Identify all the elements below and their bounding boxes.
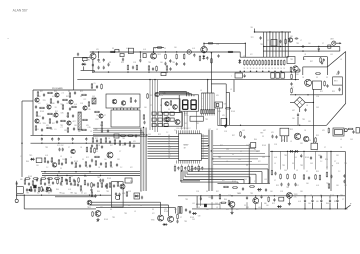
label <box>271 68 273 70</box>
transistor TR24 <box>293 66 298 71</box>
svg-text:C7: C7 <box>61 127 63 129</box>
wire <box>186 111 188 129</box>
svg-text:IC2: IC2 <box>258 161 261 163</box>
resistor <box>88 101 90 107</box>
label <box>43 123 46 125</box>
battery lead <box>345 203 352 209</box>
label <box>336 185 340 187</box>
display digit 8 <box>191 100 196 109</box>
capacitor C60 <box>102 179 104 183</box>
resistor <box>105 137 107 143</box>
label <box>226 149 229 151</box>
wire <box>246 196 248 209</box>
label <box>260 133 263 135</box>
label <box>66 116 70 118</box>
svg-text:680: 680 <box>20 179 23 181</box>
label <box>104 115 106 117</box>
svg-text:R4: R4 <box>88 60 90 62</box>
svg-text:0.01: 0.01 <box>74 104 77 106</box>
svg-text:L9: L9 <box>200 90 202 92</box>
switch box S21 <box>158 124 162 127</box>
wire <box>213 158 258 160</box>
wire <box>207 93 209 110</box>
label <box>86 157 89 159</box>
resistor R80 <box>303 174 305 180</box>
resistor <box>39 107 45 109</box>
svg-text:TR5: TR5 <box>148 62 151 64</box>
resistor R65 <box>126 191 128 197</box>
label <box>274 180 276 182</box>
svg-text:5K: 5K <box>277 68 279 70</box>
label <box>130 167 133 169</box>
ic left pin wire <box>148 148 179 150</box>
resistor <box>81 129 87 131</box>
label <box>251 37 254 39</box>
svg-text:R55: R55 <box>95 138 98 140</box>
label <box>240 151 242 153</box>
svg-text:R55: R55 <box>316 171 319 173</box>
label <box>294 197 298 199</box>
svg-text:TR9: TR9 <box>97 177 100 179</box>
svg-text:680: 680 <box>256 151 259 153</box>
wire bundle <box>143 128 145 192</box>
resistor <box>67 112 69 118</box>
label <box>246 145 248 147</box>
svg-text:L9: L9 <box>216 129 218 131</box>
capacitor <box>58 137 60 141</box>
capacitor C3 <box>98 52 100 62</box>
label <box>318 155 321 157</box>
switch box S03 <box>170 112 174 115</box>
svg-text:D3: D3 <box>110 209 112 211</box>
capacitor C55 <box>100 162 102 166</box>
ground <box>230 211 233 214</box>
junction <box>41 135 42 136</box>
capacitor C58 <box>62 148 64 152</box>
capacitor C14 <box>318 47 320 51</box>
label <box>140 191 142 193</box>
svg-text:L14: L14 <box>258 207 261 209</box>
wire <box>180 180 200 182</box>
svg-text:L9: L9 <box>226 161 228 163</box>
label <box>55 107 57 109</box>
capacitor C87 <box>330 175 332 179</box>
svg-text:IC2: IC2 <box>84 193 87 195</box>
svg-text:TR9: TR9 <box>340 195 343 197</box>
label <box>26 161 29 163</box>
label <box>220 145 223 147</box>
label <box>250 68 252 70</box>
resistor <box>106 183 108 189</box>
capacitor <box>329 196 331 209</box>
label <box>320 195 322 197</box>
label <box>277 68 279 70</box>
junction <box>330 151 331 152</box>
svg-text:1K: 1K <box>283 68 285 70</box>
ic right pin wire <box>201 153 208 155</box>
label <box>216 95 220 97</box>
svg-text:2.2: 2.2 <box>120 167 122 169</box>
svg-text:C45: C45 <box>350 139 353 141</box>
label <box>316 201 319 203</box>
junction <box>269 31 270 32</box>
junction <box>165 51 166 52</box>
svg-text:100: 100 <box>308 43 311 45</box>
capacitor C11b <box>169 59 171 63</box>
label <box>36 129 39 131</box>
label <box>280 191 283 193</box>
ic left pin wire <box>148 145 179 147</box>
svg-text:IC2: IC2 <box>291 87 294 89</box>
label <box>52 96 55 98</box>
switch box S02 <box>164 112 168 115</box>
label <box>46 104 49 106</box>
label <box>264 179 267 181</box>
svg-text:1K: 1K <box>250 68 252 70</box>
label <box>265 68 267 70</box>
label <box>308 43 311 45</box>
wire bundle <box>141 128 143 192</box>
label <box>274 144 277 146</box>
svg-text:C18: C18 <box>160 95 163 97</box>
svg-text:33: 33 <box>82 159 84 161</box>
label <box>258 191 261 193</box>
svg-text:TR5: TR5 <box>52 116 55 118</box>
label <box>98 167 101 169</box>
capacitor C72 <box>246 196 248 200</box>
svg-text:5K: 5K <box>244 68 246 70</box>
label <box>344 163 347 165</box>
resistor <box>35 125 37 131</box>
box BX21 <box>120 54 124 57</box>
capacitor C16b <box>217 54 219 58</box>
svg-text:C81: C81 <box>344 185 347 187</box>
diode D8 <box>289 150 294 153</box>
svg-text:C18: C18 <box>224 131 227 133</box>
junction <box>255 195 256 196</box>
label <box>74 161 78 163</box>
label <box>78 131 81 133</box>
label <box>231 111 235 113</box>
junction <box>21 143 22 144</box>
label <box>242 130 245 132</box>
svg-text:100: 100 <box>306 183 309 185</box>
resistor R66 <box>92 211 94 217</box>
label <box>340 59 342 61</box>
pin <box>123 108 125 110</box>
resistor R43 <box>207 110 208 116</box>
resistor ladder R20 <box>244 60 246 66</box>
label <box>305 54 307 56</box>
wire bundle <box>210 130 212 191</box>
label <box>164 211 168 213</box>
wire <box>213 161 252 163</box>
resistor <box>32 180 34 186</box>
resistor ladder R25 <box>259 60 261 66</box>
box dark <box>34 185 37 188</box>
label <box>52 123 55 125</box>
resistor ladder R32 <box>280 60 282 66</box>
title text ALAN 567 <box>13 8 28 12</box>
svg-text:C81: C81 <box>64 130 67 132</box>
capacitor C59 <box>99 179 101 183</box>
svg-text:C81: C81 <box>300 143 303 145</box>
svg-text:LD: LD <box>202 155 204 157</box>
label <box>88 127 91 129</box>
svg-text:TR5: TR5 <box>302 119 305 121</box>
svg-text:R108: R108 <box>231 111 235 113</box>
junction <box>240 125 241 126</box>
capacitor C11 <box>244 74 246 78</box>
capacitor C76 <box>290 82 292 86</box>
capacitor <box>42 116 44 120</box>
junction <box>153 51 154 52</box>
pin label <box>202 145 204 147</box>
label <box>185 92 188 94</box>
svg-text:D3: D3 <box>80 96 82 98</box>
junction <box>281 31 282 32</box>
resistor <box>280 174 282 180</box>
diode D1 <box>238 59 241 64</box>
svg-text:TR9: TR9 <box>260 133 263 135</box>
resistor <box>47 113 53 115</box>
capacitor <box>87 183 89 187</box>
junction <box>212 158 213 159</box>
label <box>46 125 50 127</box>
capacitor C12b <box>176 62 178 66</box>
capacitor C82 <box>275 135 277 139</box>
wire <box>255 196 257 209</box>
svg-text:100: 100 <box>266 205 269 207</box>
wire <box>284 32 286 57</box>
label <box>148 134 151 136</box>
label <box>120 185 123 187</box>
junction <box>289 195 290 196</box>
wire bump <box>115 49 119 52</box>
label <box>250 54 253 56</box>
svg-text:IC2: IC2 <box>37 193 40 195</box>
resistor R3 <box>157 47 163 49</box>
regulator IC4 <box>280 128 289 142</box>
capacitor C6 <box>103 66 105 70</box>
ic right pin wire <box>201 140 208 142</box>
resistor <box>57 179 59 185</box>
svg-text:5K: 5K <box>268 68 270 70</box>
svg-text:TR5: TR5 <box>112 217 115 219</box>
svg-text:100: 100 <box>38 96 41 98</box>
svg-text:C18: C18 <box>280 191 283 193</box>
svg-text:TR5: TR5 <box>59 193 62 195</box>
capacitor <box>28 182 30 186</box>
svg-text:0.01: 0.01 <box>122 193 125 195</box>
svg-text:C7: C7 <box>104 115 106 117</box>
pin <box>126 108 128 110</box>
pin <box>116 108 118 110</box>
capacitor C19 <box>152 67 154 71</box>
wire <box>326 151 328 169</box>
svg-text:R12: R12 <box>296 185 299 187</box>
resistor <box>119 140 121 146</box>
wire rail <box>90 201 161 203</box>
svg-text:C45: C45 <box>246 207 249 209</box>
wire rail <box>196 203 220 205</box>
resistor <box>40 179 42 185</box>
resistor R31 <box>101 84 103 90</box>
junction <box>89 195 90 196</box>
wire staircase <box>181 171 238 184</box>
svg-text:C7: C7 <box>324 147 326 149</box>
label <box>62 159 65 161</box>
label <box>236 209 239 211</box>
resistor R74 <box>324 81 326 87</box>
label <box>74 193 77 195</box>
label <box>316 151 318 153</box>
label <box>316 77 318 79</box>
label <box>308 121 311 123</box>
display digit 8 <box>183 100 188 109</box>
capacitor C69 <box>200 197 202 201</box>
label <box>238 159 241 161</box>
board label <box>52 87 63 90</box>
svg-text:TR9: TR9 <box>70 193 73 195</box>
capacitor <box>280 183 282 187</box>
label <box>336 163 339 165</box>
capacitor <box>36 178 38 182</box>
svg-text:D3: D3 <box>152 209 154 211</box>
capacitor <box>73 127 75 131</box>
ic right pin wire <box>201 148 208 150</box>
svg-text:C81: C81 <box>290 36 293 38</box>
resistor <box>33 178 39 180</box>
resistor R68 <box>219 194 221 200</box>
diode D6 <box>192 212 197 215</box>
resistor <box>84 180 86 186</box>
junction <box>154 79 155 80</box>
capacitor C2 <box>92 63 94 67</box>
label <box>153 48 156 50</box>
diode D3 <box>30 158 35 161</box>
capacitor C15b <box>206 56 208 60</box>
label <box>291 87 294 89</box>
resistor R59 <box>110 161 112 167</box>
label <box>66 123 70 125</box>
junction <box>299 125 300 126</box>
label <box>80 96 82 98</box>
box BX12 <box>125 178 132 183</box>
label <box>96 119 99 121</box>
svg-text:TR9: TR9 <box>106 191 109 193</box>
svg-text:680: 680 <box>316 201 319 203</box>
resistor <box>294 174 296 180</box>
label <box>310 61 313 63</box>
resistor <box>66 179 68 185</box>
junction <box>318 50 319 51</box>
label <box>84 193 87 195</box>
svg-text:TR28: TR28 <box>294 194 298 196</box>
svg-text:R64: R64 <box>130 181 133 183</box>
wire <box>261 196 263 209</box>
label <box>262 145 266 147</box>
resistor ladder R24 <box>256 60 257 66</box>
capacitor C61 <box>16 182 18 186</box>
svg-text:R12: R12 <box>158 134 161 136</box>
svg-text:R108: R108 <box>104 219 108 221</box>
junction <box>86 143 87 144</box>
capacitor C22 <box>143 121 145 125</box>
pin label <box>168 155 171 157</box>
svg-text:680: 680 <box>52 103 55 105</box>
box BX20 <box>83 58 88 61</box>
box BX2 <box>271 73 275 78</box>
label <box>95 138 98 140</box>
wire <box>200 93 202 110</box>
junction <box>100 175 101 176</box>
svg-text:33: 33 <box>316 77 318 79</box>
svg-text:L9: L9 <box>296 170 298 172</box>
box BX11 <box>114 134 119 138</box>
svg-text:TR30: TR30 <box>151 220 155 222</box>
wire <box>90 51 240 53</box>
svg-text:33: 33 <box>60 168 62 170</box>
svg-text:C18: C18 <box>196 191 199 193</box>
label <box>80 91 83 93</box>
svg-text:TR9: TR9 <box>344 163 347 165</box>
svg-text:D3: D3 <box>206 191 208 193</box>
svg-text:0.01: 0.01 <box>52 96 55 98</box>
svg-text:C88: C88 <box>198 216 201 218</box>
label <box>316 185 319 187</box>
label <box>96 221 99 223</box>
resistor R44 <box>209 110 210 116</box>
ic right pin wire <box>201 150 208 152</box>
wire bundle <box>209 130 211 191</box>
svg-text:R64: R64 <box>224 199 227 201</box>
svg-text:33: 33 <box>262 136 264 138</box>
label <box>59 193 62 195</box>
svg-text:R64: R64 <box>100 125 103 127</box>
ic left pin wire <box>148 153 179 155</box>
label <box>238 193 241 195</box>
svg-text:R108: R108 <box>74 161 78 163</box>
resistor <box>80 185 82 191</box>
ic left pin wire <box>148 143 179 145</box>
svg-text:EN: EN <box>168 137 170 139</box>
resistor ladder R22 <box>250 60 252 66</box>
capacitor C7 <box>107 63 109 67</box>
svg-text:0.01: 0.01 <box>68 189 71 191</box>
label <box>224 104 228 106</box>
capacitor <box>74 91 76 95</box>
svg-text:TR5: TR5 <box>44 191 47 193</box>
label <box>62 193 65 195</box>
wire feed <box>74 56 90 58</box>
label <box>180 217 182 219</box>
capacitor C63 <box>115 192 117 196</box>
svg-text:R12: R12 <box>272 203 275 205</box>
svg-text:0.01: 0.01 <box>38 123 41 125</box>
label <box>216 129 218 131</box>
resistor <box>37 91 39 97</box>
label <box>209 197 212 199</box>
svg-text:TR5: TR5 <box>218 157 221 159</box>
box BX4 <box>281 73 285 78</box>
capacitor C84 <box>300 154 302 158</box>
wire <box>159 92 187 97</box>
label <box>73 121 76 123</box>
label <box>28 176 32 178</box>
capacitor C64 <box>118 193 120 197</box>
label <box>281 140 284 142</box>
